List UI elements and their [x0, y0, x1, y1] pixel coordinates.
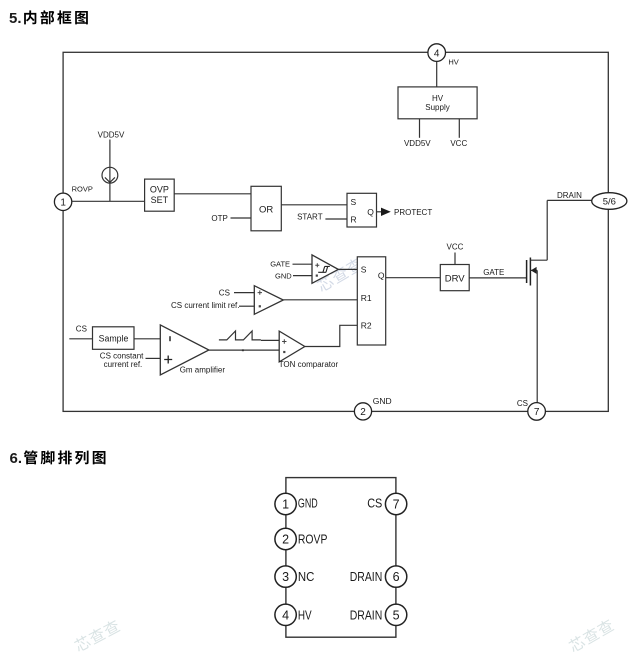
wire OR to SR latch S input: [281, 204, 347, 206]
svg-text:5: 5: [393, 608, 400, 622]
package outline: [286, 478, 396, 638]
wire GND input: [293, 275, 312, 277]
svg-text:5/6: 5/6: [603, 197, 616, 208]
svg-text:S: S: [361, 265, 367, 275]
svg-text:R1: R1: [361, 293, 372, 303]
wire Gm output to TON comparator: [209, 349, 279, 351]
wire drain to pin 5/6: [547, 199, 592, 201]
svg-text:HV: HV: [298, 608, 312, 622]
wire VDD5V stub from HV Supply: [419, 119, 421, 138]
svg-text:Supply: Supply: [425, 103, 449, 112]
wire current source to ROVP node: [109, 183, 111, 201]
wire sawtooth to TON + input: [261, 339, 279, 341]
svg-text:SET: SET: [151, 195, 169, 205]
svg-text:GND: GND: [298, 497, 318, 511]
pin 5/6 (DRAIN): [592, 193, 627, 210]
pin 7 (CS): [528, 403, 546, 421]
section title 5.内部框图: [9, 10, 88, 27]
block diagram outer frame: [63, 52, 608, 411]
svg-text:4: 4: [434, 48, 440, 59]
wire VDD5V to current source: [109, 140, 111, 168]
svg-text:OR: OR: [259, 205, 273, 216]
S R1 R2 latch block: [357, 257, 385, 345]
svg-text:6: 6: [393, 570, 400, 584]
svg-text:Sample: Sample: [99, 333, 129, 343]
PROTECT output arrow: [381, 208, 391, 216]
svg-text:OVP: OVP: [150, 184, 169, 194]
svg-text:GND: GND: [373, 396, 392, 406]
svg-text:GATE: GATE: [483, 268, 504, 277]
power MOSFET: [527, 258, 548, 286]
svg-text:DRAIN: DRAIN: [350, 570, 383, 584]
pin 1 (ROVP): [54, 193, 71, 210]
svg-text:HV: HV: [448, 57, 458, 66]
svg-text:VCC: VCC: [447, 242, 464, 251]
svg-text:VDD5V: VDD5V: [404, 139, 431, 148]
wire Q to DRV: [386, 277, 441, 279]
svg-text:NC: NC: [298, 570, 315, 584]
pin 4 (HV): [275, 604, 296, 625]
svg-text:VCC: VCC: [450, 139, 467, 148]
svg-text:DRV: DRV: [445, 273, 466, 284]
svg-text:DRAIN: DRAIN: [557, 191, 582, 200]
svg-text:CS constant: CS constant: [100, 351, 144, 360]
svg-text:ROVP: ROVP: [72, 184, 93, 193]
wire START to SR latch R input: [325, 218, 347, 220]
wire Sample to Gm amplifier: [134, 338, 160, 340]
svg-text:2: 2: [282, 533, 289, 547]
svg-text:R2: R2: [361, 321, 372, 331]
wire limit comparator to R1: [283, 299, 357, 301]
watermark center: [315, 256, 364, 293]
watermark bottom-left: [73, 618, 121, 653]
pin 2 (ROVP): [275, 528, 296, 549]
svg-text:CS: CS: [517, 399, 528, 408]
svg-text:CS current limit ref.: CS current limit ref.: [171, 301, 239, 310]
pin 3 (NC): [275, 566, 296, 587]
svg-text:5.: 5.: [9, 10, 22, 27]
svg-text:ROVP: ROVP: [298, 533, 328, 547]
watermark bottom-right: [567, 618, 615, 654]
CS current limit comparator: [254, 286, 283, 315]
OR gate block: [251, 186, 281, 231]
svg-text:OTP: OTP: [211, 214, 227, 223]
svg-text:7: 7: [534, 407, 540, 418]
SR latch: [347, 193, 377, 227]
wire comparator to S: [338, 268, 357, 270]
pin 4 (HV): [428, 44, 446, 62]
wire TON output to R2: [305, 325, 358, 346]
wire OTP to OR gate: [231, 217, 252, 219]
svg-text:GND: GND: [275, 271, 292, 280]
sawtooth ramp symbol: [219, 331, 261, 340]
wire ROVP to OVP SET: [72, 200, 145, 202]
svg-text:7: 7: [393, 498, 400, 512]
pin 2 (GND): [354, 403, 371, 420]
wire VCC to DRV: [454, 253, 456, 265]
svg-text:CS: CS: [76, 325, 87, 334]
HV Supply block: [398, 87, 477, 119]
DRV buffer block: [440, 265, 469, 291]
pin 7 (CS): [385, 493, 406, 514]
svg-text:1: 1: [282, 498, 289, 512]
wire ref to limit comparator: [239, 305, 254, 307]
wire current ref to Gm + input: [146, 357, 161, 359]
wire pin4 to HV Supply: [436, 62, 438, 87]
svg-text:3: 3: [282, 570, 289, 584]
junction dot: [242, 349, 244, 351]
svg-text:4: 4: [282, 608, 289, 622]
wire OVP SET to OR gate: [174, 193, 251, 195]
pin 5 (DRAIN): [385, 604, 406, 625]
Schmitt comparator (gate sense): [312, 255, 338, 283]
wire GATE input: [293, 263, 312, 265]
svg-text:HV: HV: [432, 94, 444, 103]
Gm amplifier: [160, 325, 209, 375]
wire VCC stub from HV Supply: [458, 119, 460, 138]
svg-text:CS: CS: [219, 288, 230, 297]
pin 1 (GND): [275, 493, 296, 514]
wire MOSFET source down to CS: [536, 270, 538, 402]
svg-text:S: S: [351, 197, 357, 207]
wire CS to limit comparator: [234, 292, 254, 294]
svg-text:VDD5V: VDD5V: [98, 131, 125, 140]
svg-text:GATE: GATE: [270, 260, 290, 269]
TON comparator: [279, 331, 305, 362]
svg-text:R: R: [351, 214, 357, 224]
Sample block: [93, 327, 135, 350]
svg-text:6.: 6.: [10, 450, 23, 467]
svg-text:TON comparator: TON comparator: [279, 360, 339, 369]
pin 6 (DRAIN): [385, 566, 406, 587]
wire DRV to MOSFET gate: [469, 277, 526, 279]
svg-text:DRAIN: DRAIN: [350, 608, 383, 622]
svg-text:Q: Q: [378, 271, 385, 281]
svg-text:2: 2: [360, 407, 366, 418]
svg-text:PROTECT: PROTECT: [394, 208, 432, 217]
wire Q to PROTECT arrow: [377, 211, 382, 213]
svg-text:current ref.: current ref.: [104, 360, 143, 369]
current source (VDD5V pull-up): [102, 167, 118, 183]
wire MOSFET drain up: [546, 200, 548, 260]
svg-text:Gm amplifier: Gm amplifier: [180, 365, 226, 374]
svg-text:1: 1: [60, 198, 66, 209]
svg-text:START: START: [297, 213, 323, 222]
svg-text:Q: Q: [367, 207, 374, 217]
label CS constant current ref.: [100, 351, 144, 369]
svg-text:CS: CS: [367, 497, 382, 511]
section title 6.管脚排列图: [10, 450, 106, 467]
wire CS to Sample: [69, 338, 92, 340]
OVP SET block: [145, 179, 175, 211]
